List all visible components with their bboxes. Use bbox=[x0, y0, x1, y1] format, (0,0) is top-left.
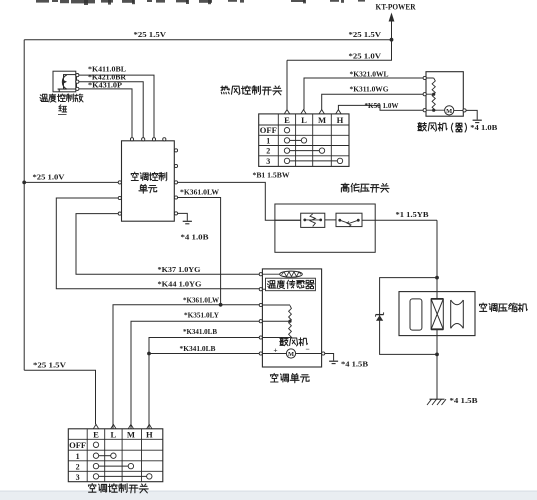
ground blower bbox=[473, 119, 482, 121]
wire A/C unit ground bbox=[325, 354, 334, 361]
svg-text:*K361.0LW: *K361.0LW bbox=[180, 188, 220, 197]
b contact 1-E bbox=[93, 453, 98, 458]
wire K44 1.0YG route bbox=[56, 198, 259, 289]
A/C unit left pin K351 bbox=[259, 320, 262, 323]
junction compressor top bbox=[435, 276, 439, 280]
unit right pin 2 bbox=[174, 164, 177, 167]
wire diode branch bbox=[380, 278, 437, 355]
wire K351.0LY bbox=[131, 321, 259, 428]
unit left pin 1 bbox=[118, 181, 121, 184]
svg-text:*K351.0LY: *K351.0LY bbox=[184, 310, 220, 319]
wire 25 1.5V to bottom table E bbox=[24, 370, 95, 424]
ground unit bbox=[183, 220, 192, 222]
svg-text:*K341.0LB: *K341.0LB bbox=[180, 344, 216, 353]
wire pin to sensor box bbox=[262, 288, 265, 290]
svg-text:L: L bbox=[301, 115, 307, 125]
low pressure switch element bbox=[301, 213, 325, 227]
label 空调控制 单元 bbox=[131, 172, 167, 181]
pressure switch outer box bbox=[275, 204, 375, 252]
knob pin 3 bbox=[76, 87, 79, 90]
svg-text:*4 1.5B: *4 1.5B bbox=[341, 360, 368, 369]
b contact 2-M bbox=[128, 463, 133, 468]
contact 3-H bbox=[337, 158, 342, 163]
blower resistor box bbox=[426, 72, 463, 117]
temperature control knob box bbox=[53, 71, 76, 92]
wire K411.0BL bbox=[79, 75, 154, 139]
label 空调单元 below box bbox=[270, 373, 309, 382]
A/C unit motor leads bbox=[262, 353, 321, 355]
contact 1-E bbox=[284, 138, 289, 143]
b bridge 2 bbox=[99, 465, 128, 467]
A/C unit box 空调单元 bbox=[262, 269, 321, 367]
A/C unit resistor zigzag bbox=[289, 306, 292, 338]
junction blower mid tap bbox=[432, 93, 435, 96]
svg-text:*25 1.0V: *25 1.0V bbox=[349, 51, 382, 60]
label 空调控制开关 bbox=[88, 484, 148, 493]
svg-text:2: 2 bbox=[76, 462, 80, 471]
svg-text:*K44 1.0YG: *K44 1.0YG bbox=[158, 280, 202, 289]
svg-text:*K311.0WG: *K311.0WG bbox=[350, 85, 389, 94]
knob symbol bbox=[64, 75, 77, 89]
bridge 2 E-M bbox=[290, 150, 320, 152]
wire pin to thermistor bbox=[262, 273, 279, 275]
unit right pin 4 bbox=[174, 196, 177, 199]
svg-text:M: M bbox=[318, 115, 326, 125]
junction left rail bbox=[22, 181, 26, 185]
svg-text:OFF: OFF bbox=[69, 441, 86, 450]
A/C unit blower motor bbox=[286, 349, 295, 358]
wire K311.0WG bbox=[322, 94, 425, 110]
knob pin 1 bbox=[76, 74, 79, 77]
svg-text:H: H bbox=[146, 430, 153, 440]
svg-text:+: + bbox=[273, 345, 277, 354]
compressor clutch coil (X box) bbox=[431, 299, 443, 329]
label 温度控制旋钮 bbox=[40, 94, 83, 102]
contact OFF-E bbox=[284, 128, 289, 133]
wire +25 1.5V top rail bbox=[24, 39, 391, 41]
svg-text:*K321.0WL: *K321.0WL bbox=[350, 69, 389, 78]
junction resistor mid tap bbox=[288, 320, 291, 323]
b contact 1-L bbox=[111, 453, 116, 458]
sensor label box 温度传感器 bbox=[266, 278, 316, 291]
svg-text:*25 1.5V: *25 1.5V bbox=[349, 30, 382, 39]
label 鼓风机（器） bbox=[418, 123, 447, 132]
label 热风控制开关 bbox=[221, 86, 282, 95]
unit top pin 3 bbox=[152, 138, 155, 141]
bridge 3 E-H bbox=[290, 160, 338, 162]
wire blower ground bbox=[466, 110, 477, 119]
svg-text:M: M bbox=[446, 108, 452, 115]
KT-POWER arrow bbox=[391, 20, 393, 40]
knob pin 2 bbox=[76, 80, 79, 83]
contact 2-M bbox=[319, 148, 324, 153]
svg-text:*1 1.5YB: *1 1.5YB bbox=[396, 210, 429, 219]
wire K50 1.0W bbox=[338, 105, 424, 110]
svg-text:−: − bbox=[305, 344, 309, 353]
unit top pin 2 bbox=[142, 138, 145, 141]
A/C unit resistor taps bbox=[262, 305, 290, 338]
wire 1 1.5YB to compressor bbox=[362, 219, 437, 221]
A/C control switch table bbox=[68, 429, 163, 482]
blower motor M bbox=[445, 106, 454, 115]
svg-text:*K431.0P: *K431.0P bbox=[88, 80, 123, 89]
b contact 3-H bbox=[147, 474, 152, 479]
arrows heater table top bbox=[284, 110, 289, 114]
junction compressor bottom bbox=[435, 353, 439, 357]
label 空调压缩机 bbox=[479, 303, 527, 312]
junction K341.0LB bbox=[147, 352, 151, 356]
cropped title text remnants bbox=[36, 0, 49, 3]
wire +25 1.0V to heater switch E bbox=[287, 40, 392, 61]
wire K421.0BR bbox=[79, 82, 143, 139]
b bridge 3 bbox=[99, 475, 147, 477]
compressor box 空调压缩机 bbox=[399, 292, 475, 336]
blower pin 3 bbox=[423, 109, 426, 112]
A/C unit left pin K341a bbox=[259, 336, 262, 339]
wire +25 1.0V to unit bbox=[24, 181, 118, 183]
contact 3-E bbox=[284, 158, 289, 163]
wire K341.0LB lower bbox=[149, 353, 259, 355]
diode D1 bbox=[376, 314, 384, 316]
svg-text:*4 1.5B: *4 1.5B bbox=[450, 396, 478, 405]
svg-text:*4 1.0B: *4 1.0B bbox=[470, 123, 497, 132]
junction blower low tap bbox=[432, 109, 435, 112]
wire between switch elements bbox=[325, 219, 336, 221]
svg-text:M: M bbox=[127, 430, 135, 440]
blower resistor zigzag bbox=[432, 78, 435, 110]
blower right pin bbox=[463, 109, 466, 112]
wire K321.0WL bbox=[304, 78, 424, 110]
compressor pulley bbox=[451, 300, 464, 328]
svg-text:E: E bbox=[93, 430, 99, 440]
arrows bottom table top bbox=[93, 424, 98, 428]
svg-text:KT-POWER: KT-POWER bbox=[376, 3, 416, 12]
b contact OFF-E bbox=[93, 442, 98, 447]
svg-text:1: 1 bbox=[266, 137, 270, 146]
contact 2-E bbox=[284, 148, 289, 153]
unit right pin 1 bbox=[174, 149, 177, 152]
blower pin 1 bbox=[423, 76, 426, 79]
blower motor leads bbox=[434, 109, 463, 111]
svg-text:*4 1.0B: *4 1.0B bbox=[181, 232, 209, 241]
unit top pin 1 bbox=[130, 138, 133, 141]
thermistor ellipse bbox=[280, 271, 303, 277]
svg-text:3: 3 bbox=[76, 473, 80, 482]
svg-text:OFF: OFF bbox=[260, 126, 277, 135]
wire left vertical +25 1.5V bbox=[23, 40, 25, 371]
wire K341.0LB upper bbox=[149, 338, 259, 429]
wire E column drop bbox=[286, 60, 288, 110]
svg-text:*25 1.5V: *25 1.5V bbox=[33, 361, 67, 370]
compressor cylinder bbox=[410, 299, 422, 330]
wire B1 1.5BW to pressure switch bbox=[178, 182, 301, 220]
unit left pin 2 bbox=[118, 196, 121, 199]
svg-text:*K37 1.0YG: *K37 1.0YG bbox=[158, 265, 201, 274]
b contact 2-E bbox=[93, 463, 98, 468]
junction KT-POWER rail bbox=[390, 38, 394, 42]
svg-text:E: E bbox=[284, 115, 290, 125]
svg-text:*B1 1.5BW: *B1 1.5BW bbox=[253, 170, 291, 179]
svg-text:1: 1 bbox=[76, 452, 80, 461]
wire K361.0LW horizontal bbox=[113, 305, 259, 429]
svg-text:*K341.0LB: *K341.0LB bbox=[183, 327, 217, 336]
svg-text:3: 3 bbox=[266, 157, 270, 166]
wire K37 1.0YG route bbox=[76, 214, 259, 275]
svg-text:H: H bbox=[337, 115, 344, 125]
wire into pressure switch bbox=[275, 219, 301, 221]
heater control switch table bbox=[259, 114, 349, 166]
b bridge 1 bbox=[99, 455, 111, 457]
A/C unit right pin bbox=[322, 352, 325, 355]
bottom grey bar bbox=[0, 491, 537, 500]
high pressure switch element bbox=[336, 213, 362, 226]
svg-text:L: L bbox=[111, 430, 117, 440]
ground compressor (hatched) bbox=[430, 398, 445, 400]
label 高低压开关 bbox=[341, 183, 389, 192]
svg-text:M: M bbox=[288, 351, 294, 358]
svg-text:*25 1.5V: *25 1.5V bbox=[134, 30, 167, 39]
A/C control unit box 空调控制单元 bbox=[122, 141, 175, 221]
A/C unit left pin K44 bbox=[259, 288, 262, 291]
svg-text:*25 1.0V: *25 1.0V bbox=[33, 173, 66, 182]
wire compressor main vertical bbox=[436, 220, 438, 399]
A/C unit left pin K361 bbox=[259, 303, 262, 306]
svg-text:*K361.0LW: *K361.0LW bbox=[183, 295, 220, 304]
bridge 1 E-L bbox=[290, 139, 302, 141]
ground A/C unit bbox=[329, 360, 338, 362]
label 鼓风机 inside A/C unit bbox=[280, 338, 308, 346]
svg-text:*K50 1.0W: *K50 1.0W bbox=[365, 101, 400, 110]
wire K361.0LW from unit bbox=[178, 198, 221, 305]
A/C unit left pin K341b bbox=[259, 352, 262, 355]
contact 1-L bbox=[301, 138, 306, 143]
junction K361.0LW bbox=[219, 303, 223, 307]
unit right pin 3 bbox=[174, 181, 177, 184]
svg-text:2: 2 bbox=[266, 147, 270, 156]
b contact 3-E bbox=[93, 474, 98, 479]
wire unit ground bbox=[178, 213, 188, 220]
blower pin 2 bbox=[423, 93, 426, 96]
unit left pin 3 bbox=[118, 212, 121, 215]
A/C unit left pin K37 bbox=[259, 273, 262, 276]
wire K431.0P bbox=[79, 89, 132, 139]
blower internal stubs bbox=[426, 78, 433, 110]
unit top pin 4 bbox=[163, 138, 166, 141]
unit right pin 5 bbox=[174, 212, 177, 215]
